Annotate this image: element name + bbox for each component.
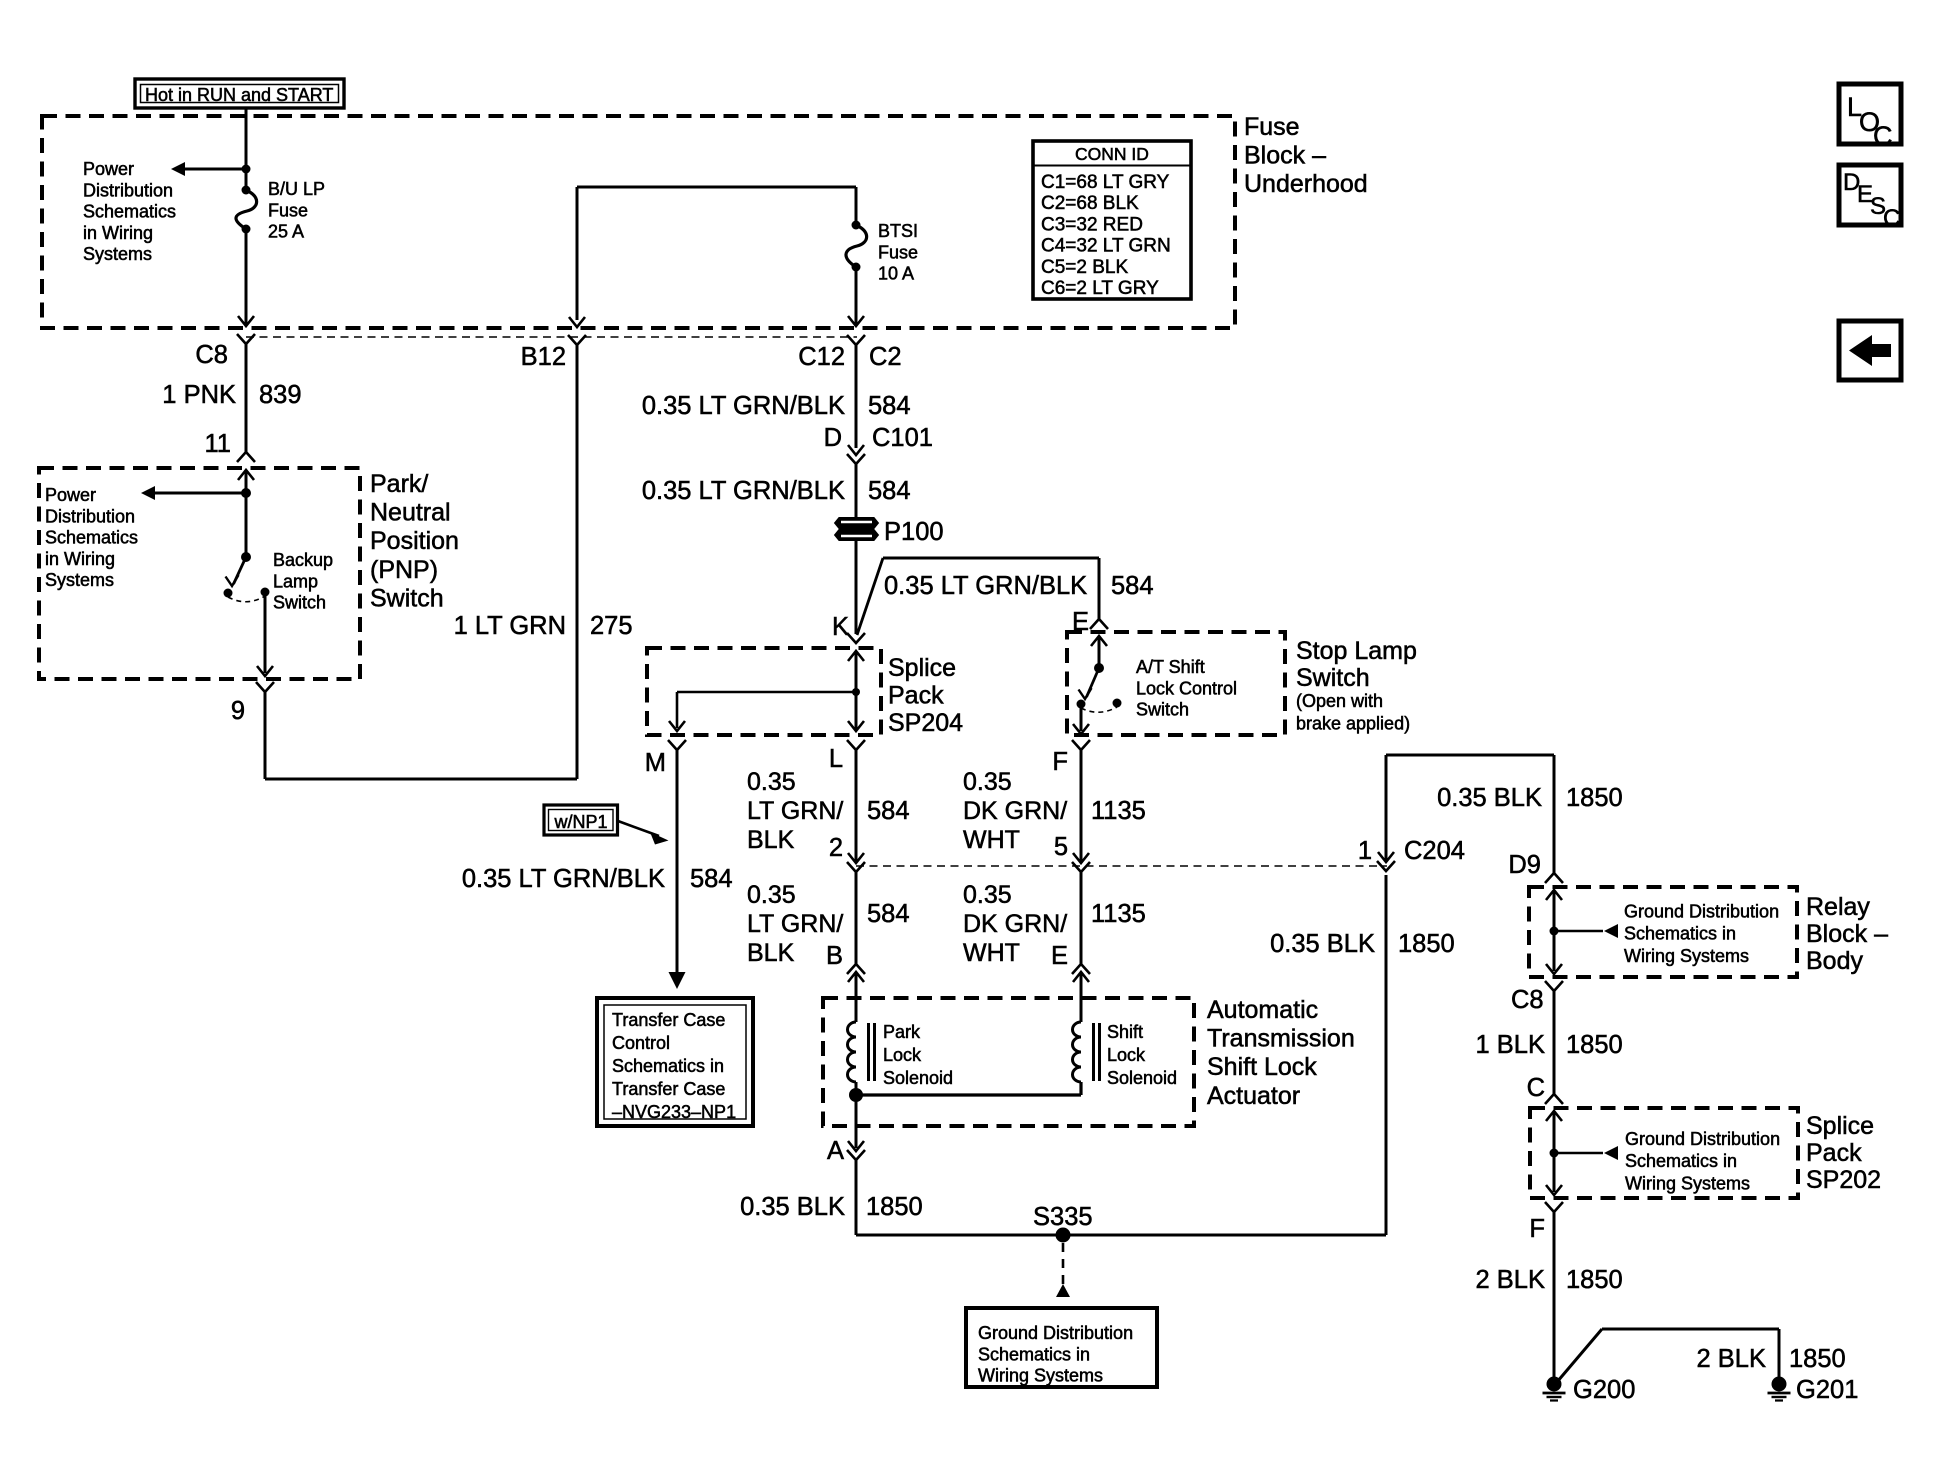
- svg-text:0.35 LT GRN/BLK: 0.35 LT GRN/BLK: [884, 572, 1087, 600]
- svg-text:1135: 1135: [1091, 900, 1146, 928]
- svg-text:w/NP1: w/NP1: [553, 812, 607, 832]
- svg-text:C: C: [1883, 205, 1900, 232]
- svg-text:K: K: [832, 613, 849, 641]
- svg-text:25 A: 25 A: [268, 222, 304, 242]
- svg-text:Distribution: Distribution: [45, 506, 135, 526]
- svg-text:0.35: 0.35: [747, 768, 796, 796]
- svg-text:Solenoid: Solenoid: [1107, 1068, 1177, 1088]
- svg-text:A/T Shift: A/T Shift: [1136, 657, 1205, 677]
- svg-text:B12: B12: [521, 343, 566, 371]
- svg-text:Pack: Pack: [888, 682, 944, 710]
- svg-text:11: 11: [205, 430, 231, 458]
- svg-text:C204: C204: [1404, 837, 1465, 865]
- svg-text:C8: C8: [195, 341, 228, 369]
- svg-text:WHT: WHT: [963, 826, 1020, 854]
- svg-text:L: L: [829, 745, 843, 773]
- svg-text:C101: C101: [872, 424, 933, 452]
- svg-text:584: 584: [868, 477, 911, 505]
- svg-text:0.35: 0.35: [963, 768, 1012, 796]
- svg-text:E: E: [1051, 942, 1068, 970]
- svg-text:in Wiring: in Wiring: [45, 549, 115, 569]
- svg-text:LT GRN/: LT GRN/: [747, 797, 843, 825]
- svg-text:1850: 1850: [1789, 1345, 1846, 1373]
- svg-text:2: 2: [829, 834, 843, 862]
- svg-text:C: C: [1873, 121, 1893, 151]
- svg-text:C12: C12: [798, 343, 845, 371]
- svg-text:A: A: [827, 1137, 844, 1165]
- svg-text:Block –: Block –: [1806, 920, 1888, 948]
- svg-text:2 BLK: 2 BLK: [1476, 1266, 1545, 1294]
- svg-text:Backup: Backup: [273, 550, 333, 570]
- svg-text:F: F: [1052, 748, 1068, 776]
- svg-text:275: 275: [590, 612, 633, 640]
- svg-text:DK GRN/: DK GRN/: [963, 797, 1067, 825]
- svg-text:Pack: Pack: [1806, 1139, 1862, 1167]
- svg-text:C: C: [1527, 1074, 1545, 1102]
- svg-text:B: B: [826, 942, 843, 970]
- svg-text:DK GRN/: DK GRN/: [963, 910, 1067, 938]
- svg-text:D9: D9: [1508, 851, 1541, 879]
- svg-text:G200: G200: [1573, 1376, 1635, 1404]
- svg-text:Lock: Lock: [883, 1045, 922, 1065]
- svg-text:Body: Body: [1806, 947, 1863, 975]
- svg-text:Relay: Relay: [1806, 893, 1870, 921]
- svg-text:Switch: Switch: [1136, 700, 1189, 720]
- svg-text:0.35 BLK: 0.35 BLK: [740, 1193, 845, 1221]
- svg-text:Transfer Case: Transfer Case: [612, 1010, 725, 1030]
- svg-text:Fuse: Fuse: [878, 242, 918, 262]
- svg-text:C3=32 RED: C3=32 RED: [1041, 214, 1143, 235]
- svg-text:Fuse: Fuse: [268, 200, 308, 220]
- svg-text:0.35 LT GRN/BLK: 0.35 LT GRN/BLK: [642, 477, 845, 505]
- svg-text:C2=68 BLK: C2=68 BLK: [1041, 193, 1139, 214]
- svg-text:Fuse: Fuse: [1244, 113, 1300, 141]
- svg-text:Schematics: Schematics: [45, 528, 138, 548]
- svg-text:Systems: Systems: [45, 570, 114, 590]
- svg-text:Switch: Switch: [370, 584, 444, 612]
- svg-text:SP202: SP202: [1806, 1166, 1881, 1194]
- svg-text:Distribution: Distribution: [83, 180, 173, 200]
- svg-text:0.35 BLK: 0.35 BLK: [1270, 930, 1375, 958]
- svg-text:Ground Distribution: Ground Distribution: [1625, 1129, 1780, 1149]
- svg-text:M: M: [645, 749, 666, 777]
- svg-text:in Wiring: in Wiring: [83, 223, 153, 243]
- svg-text:Schematics in: Schematics in: [978, 1344, 1090, 1364]
- svg-text:Lamp: Lamp: [273, 571, 318, 591]
- svg-text:LT GRN/: LT GRN/: [747, 910, 843, 938]
- svg-text:584: 584: [867, 900, 910, 928]
- svg-text:G201: G201: [1796, 1376, 1858, 1404]
- svg-text:Transmission: Transmission: [1207, 1025, 1355, 1053]
- svg-text:Splice: Splice: [888, 654, 956, 682]
- svg-text:Park/: Park/: [370, 470, 428, 498]
- svg-text:Solenoid: Solenoid: [883, 1068, 953, 1088]
- svg-text:Wiring Systems: Wiring Systems: [978, 1366, 1103, 1386]
- svg-text:BTSI: BTSI: [878, 221, 918, 241]
- svg-text:1 LT GRN: 1 LT GRN: [454, 612, 566, 640]
- svg-text:9: 9: [231, 697, 245, 725]
- svg-text:0.35: 0.35: [963, 881, 1012, 909]
- svg-text:SP204: SP204: [888, 709, 963, 737]
- svg-text:584: 584: [690, 865, 733, 893]
- svg-text:Automatic: Automatic: [1207, 996, 1318, 1024]
- svg-text:Systems: Systems: [83, 244, 152, 264]
- svg-text:S335: S335: [1033, 1203, 1093, 1231]
- svg-text:Schematics: Schematics: [83, 202, 176, 222]
- svg-text:Block –: Block –: [1244, 142, 1326, 170]
- svg-text:Ground Distribution: Ground Distribution: [978, 1323, 1133, 1343]
- svg-text:(Open with: (Open with: [1296, 691, 1383, 711]
- svg-text:1850: 1850: [1566, 1031, 1623, 1059]
- svg-text:WHT: WHT: [963, 939, 1020, 967]
- svg-text:0.35 LT GRN/BLK: 0.35 LT GRN/BLK: [642, 392, 845, 420]
- svg-text:Actuator: Actuator: [1207, 1082, 1300, 1110]
- svg-text:Switch: Switch: [273, 593, 326, 613]
- svg-text:Switch: Switch: [1296, 664, 1370, 692]
- svg-text:(PNP): (PNP): [370, 556, 438, 584]
- svg-text:Hot in RUN and START: Hot in RUN and START: [145, 85, 333, 105]
- svg-text:BLK: BLK: [747, 826, 795, 854]
- svg-text:0.35: 0.35: [747, 881, 796, 909]
- svg-text:1: 1: [1358, 837, 1372, 865]
- svg-text:C5=2 BLK: C5=2 BLK: [1041, 257, 1128, 278]
- svg-text:Lock Control: Lock Control: [1136, 678, 1237, 698]
- svg-text:Power: Power: [45, 485, 96, 505]
- svg-text:Wiring Systems: Wiring Systems: [1625, 1173, 1750, 1193]
- svg-text:584: 584: [1111, 572, 1154, 600]
- svg-text:Schematics in: Schematics in: [1625, 1151, 1737, 1171]
- svg-text:–NVG233–NP1: –NVG233–NP1: [612, 1102, 736, 1122]
- svg-text:C6=2 LT GRY: C6=2 LT GRY: [1041, 278, 1159, 299]
- svg-text:1135: 1135: [1091, 797, 1146, 825]
- svg-text:BLK: BLK: [747, 939, 795, 967]
- svg-text:2 BLK: 2 BLK: [1697, 1345, 1766, 1373]
- svg-text:Position: Position: [370, 527, 459, 555]
- svg-text:Ground Distribution: Ground Distribution: [1624, 902, 1779, 922]
- svg-text:Stop Lamp: Stop Lamp: [1296, 637, 1417, 665]
- svg-text:1850: 1850: [1566, 1266, 1623, 1294]
- svg-text:F: F: [1529, 1215, 1545, 1243]
- svg-text:Schematics in: Schematics in: [1624, 924, 1736, 944]
- svg-text:1 PNK: 1 PNK: [162, 381, 236, 409]
- svg-text:584: 584: [867, 797, 910, 825]
- svg-text:Park: Park: [883, 1022, 921, 1042]
- svg-text:1850: 1850: [1566, 784, 1623, 812]
- svg-text:Splice: Splice: [1806, 1112, 1874, 1140]
- svg-text:C4=32 LT GRN: C4=32 LT GRN: [1041, 236, 1171, 257]
- svg-text:1850: 1850: [1398, 930, 1455, 958]
- svg-text:10 A: 10 A: [878, 264, 914, 284]
- svg-text:1 BLK: 1 BLK: [1476, 1031, 1545, 1059]
- svg-text:Power: Power: [83, 159, 134, 179]
- svg-text:Lock: Lock: [1107, 1045, 1146, 1065]
- svg-text:C1=68 LT GRY: C1=68 LT GRY: [1041, 172, 1170, 193]
- svg-text:Wiring Systems: Wiring Systems: [1624, 946, 1749, 966]
- svg-text:1850: 1850: [866, 1193, 923, 1221]
- svg-text:0.35 LT GRN/BLK: 0.35 LT GRN/BLK: [462, 865, 665, 893]
- svg-text:Underhood: Underhood: [1244, 170, 1368, 198]
- svg-text:Transfer Case: Transfer Case: [612, 1079, 725, 1099]
- svg-text:D: D: [824, 424, 842, 452]
- svg-text:5: 5: [1054, 833, 1068, 861]
- svg-text:P100: P100: [884, 518, 944, 546]
- svg-text:Control: Control: [612, 1033, 670, 1053]
- svg-text:brake applied): brake applied): [1296, 714, 1410, 734]
- svg-text:B/U LP: B/U LP: [268, 179, 325, 199]
- svg-text:Neutral: Neutral: [370, 499, 451, 527]
- svg-text:Shift: Shift: [1107, 1022, 1143, 1042]
- svg-text:Shift Lock: Shift Lock: [1207, 1053, 1317, 1081]
- svg-text:584: 584: [868, 392, 911, 420]
- svg-text:C8: C8: [1511, 986, 1544, 1014]
- svg-text:Schematics in: Schematics in: [612, 1056, 724, 1076]
- svg-text:0.35 BLK: 0.35 BLK: [1437, 784, 1542, 812]
- svg-text:CONN ID: CONN ID: [1075, 144, 1149, 164]
- svg-text:C2: C2: [869, 343, 902, 371]
- svg-text:839: 839: [259, 381, 302, 409]
